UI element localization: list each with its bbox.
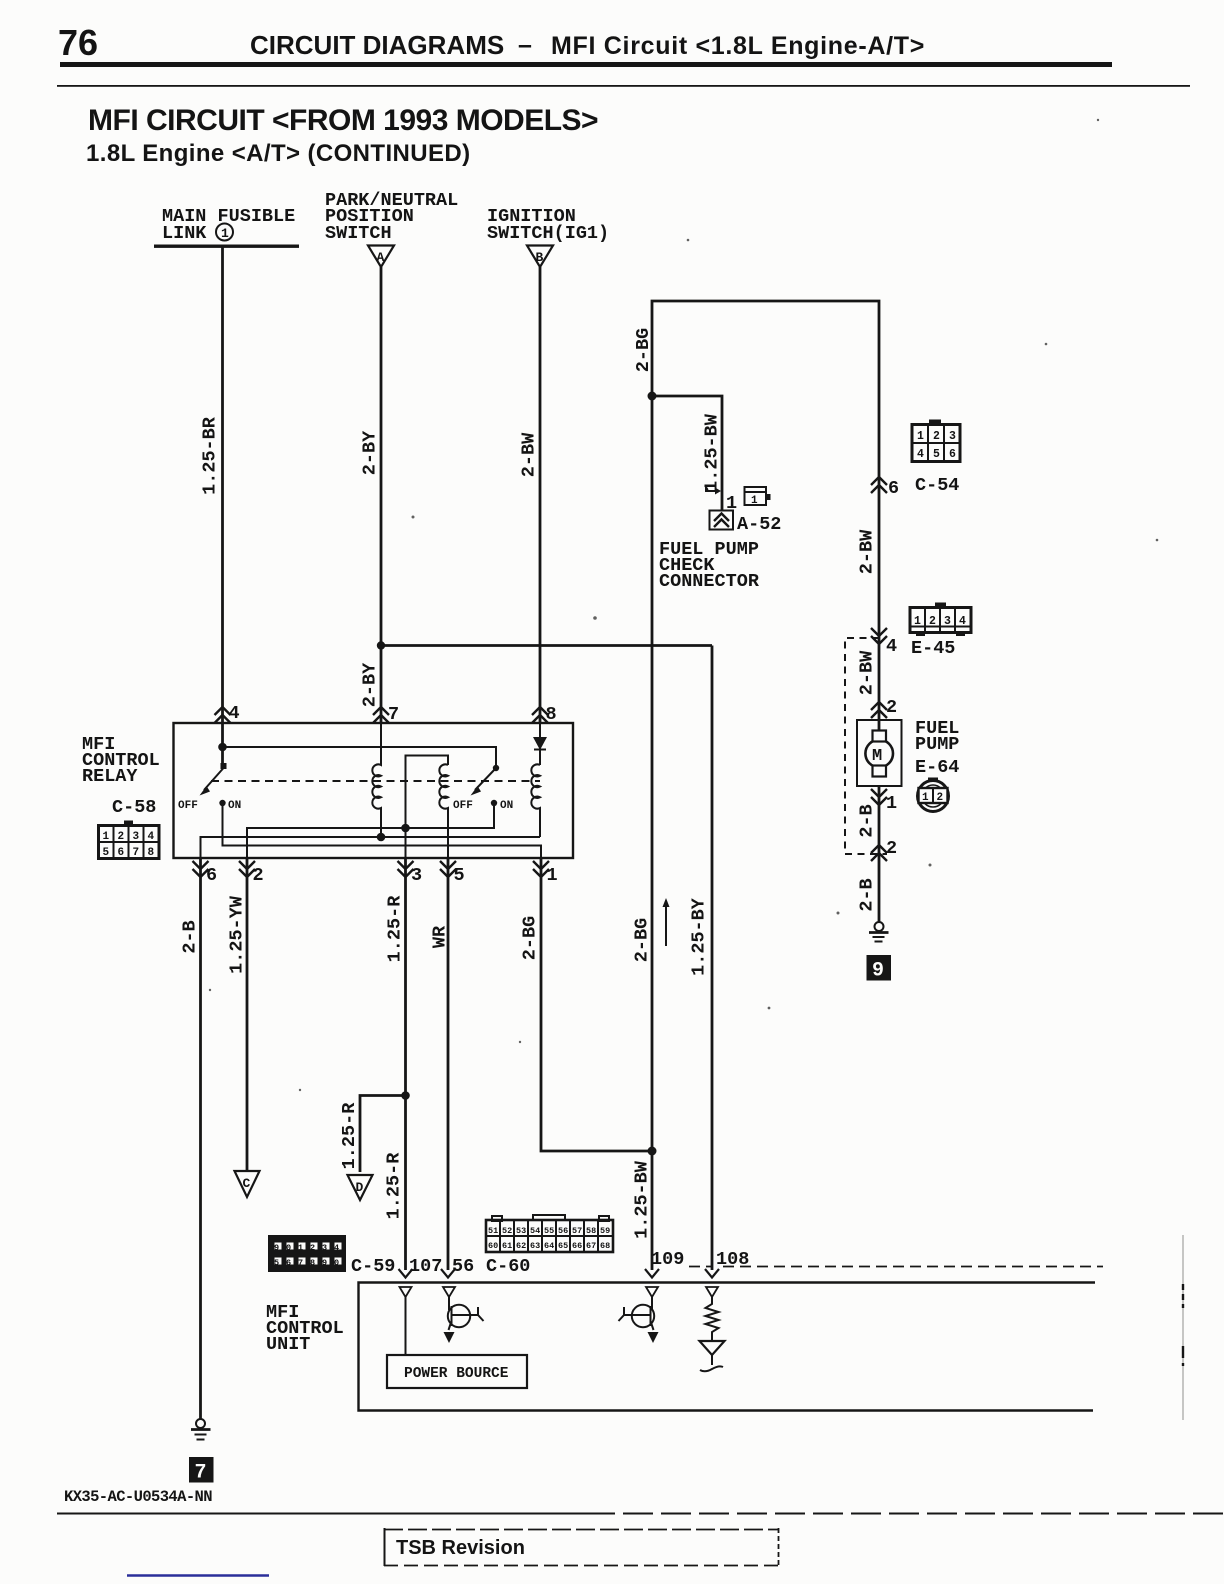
scan speckles — [209, 119, 1158, 1091]
wire label 1.25-BR — [200, 416, 221, 495]
wire label 1.25-R upper — [385, 895, 406, 963]
svg-text:1.25-BW: 1.25-BW — [702, 413, 723, 492]
pin 109 fork — [645, 1269, 659, 1278]
relay pin 3 chevrons — [398, 861, 423, 886]
svg-text:2-BW: 2-BW — [857, 650, 878, 695]
mechanical link dashed line — [211, 780, 540, 782]
node at pin7 branch — [377, 641, 385, 649]
drawing code KX35-AC-U0534A-NN — [64, 1488, 212, 1506]
svg-text:UNIT: UNIT — [266, 1334, 310, 1355]
internal bus pins 2-3 / switch2 ON — [247, 806, 494, 858]
svg-text:59: 59 — [600, 1226, 610, 1236]
direction arrow on 2-BG riser — [663, 898, 670, 946]
E-45 pass-through chevrons pin 4 — [871, 628, 897, 657]
wire 2-BW from ignition switch to relay pin 8 — [539, 267, 542, 723]
connector triangle C — [235, 1171, 260, 1197]
label 56 — [452, 1256, 474, 1277]
svg-text:ON: ON — [500, 800, 513, 812]
connector C-59 icon — [268, 1235, 346, 1272]
A-52 connector face icon — [745, 487, 771, 507]
svg-text:2: 2 — [886, 697, 897, 718]
header thin rule — [57, 85, 1190, 87]
svg-text:62: 62 — [516, 1241, 526, 1251]
svg-text:2: 2 — [937, 792, 944, 804]
svg-text:76: 76 — [58, 22, 98, 63]
internal link pin4 to switch2 pivot — [223, 747, 497, 768]
sub heading — [86, 140, 471, 167]
svg-text:0: 0 — [334, 1258, 339, 1268]
svg-text:3: 3 — [949, 430, 956, 443]
svg-text:B: B — [536, 250, 544, 265]
svg-text:7: 7 — [133, 847, 140, 859]
svg-text:1: 1 — [914, 615, 921, 628]
svg-text:4: 4 — [334, 1243, 339, 1253]
svg-text:2-BW: 2-BW — [519, 432, 540, 477]
wire 1.25-YW pin2 to connector C — [246, 858, 249, 1171]
svg-text:9: 9 — [872, 960, 884, 983]
svg-text:C-58: C-58 — [112, 797, 156, 818]
wire 2-BG riser and top run to fuel pump feed — [652, 301, 879, 644]
ground ref box 7 — [189, 1457, 214, 1485]
wire label 1.25-R lower — [384, 1152, 405, 1220]
label C-58 — [112, 797, 156, 818]
svg-text:2: 2 — [118, 831, 125, 843]
svg-text:53: 53 — [516, 1226, 526, 1236]
svg-text:1: 1 — [298, 1243, 303, 1253]
svg-text:1: 1 — [547, 865, 558, 886]
svg-text:A-52: A-52 — [737, 514, 781, 535]
pin 56 fork — [441, 1269, 455, 1278]
svg-text:CONNECTOR: CONNECTOR — [659, 571, 760, 592]
svg-text:68: 68 — [600, 1241, 610, 1251]
label: IGNITION SWITCH(IG1) — [487, 206, 609, 244]
relay pin 2 chevrons — [239, 861, 264, 886]
svg-text:3: 3 — [944, 615, 951, 628]
svg-text:6: 6 — [206, 865, 217, 886]
wire label 2-BG pin1 — [520, 916, 541, 960]
svg-text:C-60: C-60 — [486, 1256, 530, 1277]
page number 76 — [58, 22, 98, 63]
dashed boundary right of 108 — [689, 1266, 1103, 1268]
svg-text:M: M — [872, 747, 882, 766]
svg-text:63: 63 — [530, 1241, 540, 1251]
svg-text:7: 7 — [195, 1462, 207, 1485]
wire 1.25-BR from fusible link to relay pin 4 — [221, 246, 224, 723]
svg-text:RELAY: RELAY — [82, 766, 138, 787]
wire label 1.25-YW — [227, 895, 248, 974]
svg-text:6: 6 — [286, 1258, 291, 1268]
pump pin 1 chevrons — [871, 789, 897, 814]
label FUEL PUMP E-64 — [915, 718, 959, 778]
svg-text:0: 0 — [286, 1243, 291, 1253]
svg-text:2-B: 2-B — [857, 878, 878, 911]
svg-text:5: 5 — [454, 865, 465, 886]
wire label 2-B (to ground) — [857, 878, 878, 911]
svg-text:6: 6 — [949, 448, 956, 461]
node 109 junction — [648, 1147, 657, 1156]
svg-text:E-45: E-45 — [911, 638, 955, 659]
wire label 2-BW (C-54 to E-45) — [857, 529, 878, 574]
svg-text:ON: ON — [228, 800, 241, 812]
relay internal feed from pin 4 — [221, 723, 224, 766]
relay pin 5 chevrons — [440, 861, 465, 886]
label FUEL PUMP CHECK CONNECTOR — [659, 539, 760, 592]
wire 107 to power source — [405, 1297, 407, 1355]
transistor at pin 109 — [619, 1297, 659, 1343]
relay pin 1 chevrons — [533, 861, 558, 886]
pin 107 fork — [399, 1269, 413, 1278]
label 108 — [716, 1249, 749, 1270]
svg-text:1.25-R: 1.25-R — [385, 895, 406, 963]
wire label 1.25-BW lower — [632, 1160, 653, 1239]
svg-text:51: 51 — [488, 1226, 498, 1236]
svg-text:7: 7 — [388, 704, 399, 725]
svg-text:1.25-BY: 1.25-BY — [689, 897, 710, 976]
label E-45 — [911, 638, 955, 659]
svg-text:8: 8 — [310, 1258, 315, 1268]
svg-text:6: 6 — [888, 478, 899, 499]
svg-text:64: 64 — [544, 1241, 554, 1251]
svg-text:1.25-YW: 1.25-YW — [227, 895, 248, 974]
svg-text:C-54: C-54 — [915, 475, 959, 496]
pump body pin 2 chevrons — [871, 838, 897, 861]
relay coil on pin 7 — [372, 723, 381, 837]
relay pin 4 chevrons — [215, 703, 240, 724]
connector E-45 icon — [910, 603, 971, 637]
wire 2-BG pin1 to 109 riser — [541, 858, 652, 1151]
svg-text:8: 8 — [148, 847, 155, 859]
wire label 2-BY lower — [360, 662, 381, 707]
svg-text:A: A — [377, 250, 385, 265]
svg-text:9: 9 — [322, 1258, 327, 1268]
pin 3 internal drop — [405, 828, 407, 858]
unit pin socket 56 — [443, 1287, 455, 1297]
svg-text:C-59: C-59 — [351, 1256, 395, 1277]
label: MAIN FUSIBLE LINK 1 — [162, 206, 295, 244]
fusible link bar — [154, 245, 299, 248]
relay coil on pin 8 — [531, 764, 540, 837]
direction arrow near A-52 — [706, 486, 721, 495]
wire label 2-BW (into pump) — [857, 650, 878, 695]
svg-text:109: 109 — [651, 1249, 684, 1270]
svg-text:2-BW: 2-BW — [857, 529, 878, 574]
svg-text:4: 4 — [148, 831, 155, 843]
POWER SOURCE box — [387, 1355, 527, 1388]
connector A-52 chevron box — [710, 511, 734, 530]
svg-text:2-B: 2-B — [180, 920, 201, 953]
svg-text:2: 2 — [253, 865, 264, 886]
resistor and diode at pin 108 — [700, 1297, 725, 1371]
svg-text:60: 60 — [488, 1241, 498, 1251]
svg-text:KX35-AC-U0534A-NN: KX35-AC-U0534A-NN — [64, 1488, 212, 1506]
label: PARK/NEUTRAL POSITION SWITCH — [325, 190, 458, 244]
unit pin socket 107 — [400, 1287, 412, 1297]
svg-text:1: 1 — [103, 831, 110, 843]
svg-text:3: 3 — [133, 831, 140, 843]
svg-text:1: 1 — [886, 793, 897, 814]
relay coil mid (pin 5) — [406, 756, 449, 859]
svg-text:52: 52 — [502, 1226, 512, 1236]
label 109 — [651, 1249, 684, 1270]
page bottom dashed rule — [57, 1513, 1224, 1515]
svg-text:1.8L Engine <A/T> (CONTINUED): 1.8L Engine <A/T> (CONTINUED) — [86, 140, 471, 167]
svg-text:4: 4 — [917, 448, 924, 461]
svg-text:OFF: OFF — [453, 800, 473, 812]
wire label 2-BY upper — [360, 430, 381, 475]
svg-text:3: 3 — [322, 1243, 327, 1253]
svg-text:CIRCUIT DIAGRAMS: CIRCUIT DIAGRAMS — [250, 30, 504, 60]
wire 2-BY from park/neutral switch to relay pin 7 — [380, 267, 383, 723]
wire label 2-BG riser — [632, 918, 653, 962]
connector E-64 round icon — [918, 778, 949, 812]
internal bus pin 6 to coils — [201, 837, 541, 858]
node 2-BG junction — [648, 392, 657, 401]
node coil7 bus — [377, 833, 386, 842]
svg-text:1.25-R: 1.25-R — [384, 1152, 405, 1220]
svg-text:POWER BOURCE: POWER BOURCE — [404, 1366, 509, 1382]
node pin4 internal — [218, 743, 227, 752]
main heading — [88, 104, 598, 137]
svg-text:3: 3 — [411, 865, 422, 886]
label C-59 — [351, 1256, 395, 1277]
svg-text:4: 4 — [959, 615, 966, 628]
svg-text:MFI Circuit <1.8L Engine-A/T>: MFI Circuit <1.8L Engine-A/T> — [551, 32, 925, 60]
wire 2-BY branch from pin7 node to 1.25-BY drop — [381, 644, 712, 647]
fuel pump motor M (E-64) — [857, 720, 902, 786]
svg-text:107: 107 — [409, 1256, 442, 1277]
svg-text:65: 65 — [558, 1241, 568, 1251]
svg-text:LINK: LINK — [162, 223, 207, 244]
svg-text:1: 1 — [751, 495, 758, 507]
wire label 1.25-R branch — [339, 1102, 360, 1170]
connector C-60 icon — [486, 1215, 613, 1252]
svg-text:8: 8 — [546, 704, 557, 725]
svg-text:2-B: 2-B — [857, 804, 878, 837]
svg-text:56: 56 — [452, 1256, 474, 1277]
wire 2-B out of pump — [878, 786, 881, 922]
wire label 1.25-BW (A-52 branch) — [702, 413, 723, 492]
connector triangle A — [368, 246, 394, 268]
svg-text:5: 5 — [103, 847, 110, 859]
C-54 pass-through chevrons pin 6 — [871, 477, 899, 499]
svg-text:61: 61 — [502, 1241, 512, 1251]
svg-text:4: 4 — [886, 636, 897, 657]
label C-60 — [486, 1256, 530, 1277]
svg-text:1: 1 — [917, 430, 924, 443]
connector C-54 icon — [912, 420, 960, 462]
pin 108 fork — [705, 1269, 719, 1278]
page title — [250, 30, 925, 60]
svg-text:–: – — [518, 31, 532, 59]
pump pin 2 chevrons — [871, 697, 897, 718]
svg-text:4: 4 — [229, 703, 240, 724]
ground left (pin 6) — [191, 1419, 211, 1440]
svg-text:57: 57 — [572, 1226, 582, 1236]
svg-text:58: 58 — [586, 1226, 596, 1236]
TSB Revision box — [384, 1528, 779, 1566]
header thick rule — [60, 62, 1112, 67]
relay box C-58 — [174, 723, 574, 858]
relay pin 6 chevrons — [193, 861, 218, 886]
svg-text:54: 54 — [530, 1226, 540, 1236]
ground ref box 9 — [867, 955, 892, 983]
svg-text:2: 2 — [310, 1243, 315, 1253]
svg-text:WR: WR — [430, 925, 451, 948]
svg-text:OFF: OFF — [178, 800, 198, 812]
wire 2-BG riser down to MFI unit 109 — [651, 396, 654, 1270]
wire 1.25-R pin3 to MFI unit 107 — [404, 858, 407, 1270]
svg-text:D: D — [356, 1180, 364, 1195]
svg-text:5: 5 — [933, 448, 940, 461]
svg-text:67: 67 — [586, 1241, 596, 1251]
relay pin 8 chevrons — [532, 704, 557, 725]
svg-text:6: 6 — [118, 847, 125, 859]
svg-text:2: 2 — [933, 430, 940, 443]
svg-text:55: 55 — [544, 1226, 554, 1236]
wire label 2-BG top — [633, 328, 654, 372]
node pin3 bus — [401, 824, 410, 833]
svg-text:2-BG: 2-BG — [633, 328, 654, 372]
wire 2-B pin6 to body ground — [199, 858, 202, 1419]
svg-text:2-BY: 2-BY — [360, 662, 381, 707]
label C-54 — [915, 475, 959, 496]
wire 1.25-BW branch to A-52 — [652, 396, 722, 511]
svg-text:SWITCH: SWITCH — [325, 223, 392, 244]
svg-text:1.25-BW: 1.25-BW — [632, 1160, 653, 1239]
dashed right edge — [1182, 1235, 1184, 1420]
wire label 1.25-BY — [689, 897, 710, 976]
svg-text:1.25-BR: 1.25-BR — [200, 416, 221, 495]
relay switch 1 — [178, 763, 241, 812]
wire 1.25-R branch to connector D — [360, 1096, 406, 1173]
svg-text:C: C — [243, 1176, 251, 1191]
svg-text:56: 56 — [558, 1226, 568, 1236]
wire label WR — [430, 925, 451, 948]
connector triangle D — [348, 1175, 373, 1200]
wire label 2-B (inside enclosure) — [857, 804, 878, 837]
svg-text:9: 9 — [274, 1243, 279, 1253]
transistor at pin 56 — [444, 1297, 484, 1343]
unit pin socket 109 — [646, 1287, 658, 1297]
wire 2-BW into pump — [878, 644, 881, 731]
svg-text:2-BG: 2-BG — [632, 918, 653, 962]
internal bus switch1 ON to pin 1 — [223, 806, 542, 858]
svg-text:MFI CIRCUIT <FROM 1993 MODELS>: MFI CIRCUIT <FROM 1993 MODELS> — [88, 104, 598, 137]
wire 1.25-BY to MFI unit 108 — [711, 646, 714, 1271]
ground right (fuel pump) — [869, 922, 889, 942]
wire label 2-BW — [519, 432, 540, 477]
node 1.25-R branch — [401, 1091, 410, 1100]
wire WR pin5 to MFI unit 56 — [447, 858, 450, 1270]
svg-text:SWITCH(IG1): SWITCH(IG1) — [487, 223, 609, 244]
svg-text:2: 2 — [929, 615, 936, 628]
relay pin 7 chevrons — [373, 704, 399, 725]
svg-text:2-BY: 2-BY — [360, 430, 381, 475]
connector triangle B — [527, 246, 553, 268]
svg-text:1.25-R: 1.25-R — [339, 1102, 360, 1170]
relay switch 2 — [453, 765, 513, 812]
svg-text:2-BG: 2-BG — [520, 916, 541, 960]
label 107 — [409, 1256, 442, 1277]
svg-text:7: 7 — [298, 1258, 303, 1268]
svg-text:66: 66 — [572, 1241, 582, 1251]
bottom blue mark — [127, 1574, 269, 1577]
label MFI CONTROL RELAY — [82, 734, 160, 787]
relay diode on pin 8 — [533, 723, 547, 765]
svg-text:PUMP: PUMP — [915, 734, 959, 755]
pin 1 label at A-52 — [726, 493, 737, 514]
MFI control unit box — [359, 1283, 1096, 1411]
connector C-58 icon — [99, 821, 160, 860]
svg-text:5: 5 — [274, 1258, 279, 1268]
svg-text:1: 1 — [221, 226, 229, 241]
unit pin socket 108 — [706, 1287, 718, 1297]
label A-52 — [737, 514, 781, 535]
svg-text:2: 2 — [886, 838, 897, 859]
fuel pump assembly dashed enclosure — [845, 638, 887, 854]
svg-text:TSB Revision: TSB Revision — [396, 1537, 525, 1559]
label MFI CONTROL UNIT — [266, 1302, 344, 1355]
wire label 2-B pin6 — [180, 920, 201, 953]
svg-text:1: 1 — [922, 792, 929, 804]
svg-text:E-64: E-64 — [915, 757, 959, 778]
